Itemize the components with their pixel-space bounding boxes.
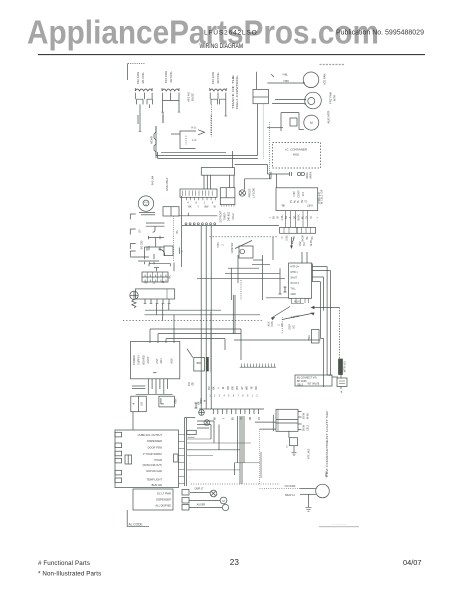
- svg-text:DISPENSER: DISPENSER: [156, 498, 171, 502]
- svg-text:Y/BK: Y/BK: [175, 398, 178, 404]
- svg-text:VI: VI: [310, 216, 313, 219]
- svg-text:GND: GND: [291, 293, 297, 296]
- svg-text:D.BU: D.BU: [281, 214, 284, 220]
- svg-text:ICE FAN: ICE FAN: [323, 74, 327, 85]
- svg-text:H.O.: H.O.: [191, 125, 197, 129]
- svg-text:BK: BK: [273, 216, 276, 220]
- svg-text:BK: BK: [215, 417, 217, 421]
- svg-text:BD: BD: [293, 325, 296, 329]
- svg-text:DAMPER: DAMPER: [231, 242, 234, 253]
- svg-text:GY: GY: [259, 416, 261, 420]
- svg-text:CBL2: CBL2: [232, 213, 235, 220]
- svg-text:Publication No. 5995488029: Publication No. 5995488029: [336, 29, 424, 36]
- svg-text:P#4 120V: P#4 120V: [211, 72, 215, 84]
- svg-text:BU: BU: [302, 216, 305, 220]
- svg-text:NOPUD GAD: NOPUD GAD: [146, 469, 162, 473]
- svg-text:RD: RD: [256, 386, 258, 390]
- svg-text:— —— ——: — —— ——: [332, 523, 347, 526]
- svg-text:<: <: [269, 216, 271, 220]
- svg-text:RLY: RLY: [302, 191, 305, 196]
- svg-text:DELI CONTROL: DELI CONTROL: [235, 74, 239, 109]
- svg-text:ACAR: ACAR: [150, 136, 154, 144]
- svg-text:WIRING DIAGRAM: WIRING DIAGRAM: [200, 43, 244, 50]
- svg-text:OR: OR: [250, 416, 252, 420]
- svg-text:AU: AU: [294, 200, 297, 204]
- svg-text:GND CBL4: GND CBL4: [165, 177, 169, 191]
- svg-text:CBL2: CBL2: [307, 424, 310, 431]
- svg-text:MTR 1: MTR 1: [291, 271, 299, 274]
- svg-text:BR: BR: [233, 386, 235, 390]
- svg-text:L.O.: L.O.: [192, 138, 197, 142]
- svg-text:AUX: AUX: [170, 358, 174, 364]
- svg-text:BL/R OD: BL/R OD: [152, 483, 163, 487]
- svg-text:DISPENSER: DISPENSER: [147, 439, 162, 443]
- svg-text:BL/SC: BL/SC: [191, 93, 195, 101]
- svg-text:ASSY: ASSY: [146, 356, 150, 363]
- svg-text:AL.CODE: AL.CODE: [129, 523, 143, 527]
- svg-text:DC LT PWR: DC LT PWR: [157, 492, 171, 496]
- svg-text:Y/R L400: Y/R L400: [308, 448, 311, 459]
- svg-text:OR: OR: [293, 215, 296, 219]
- svg-text:04/07: 04/07: [403, 558, 422, 567]
- svg-text:WTR VLV: WTR VLV: [343, 361, 347, 373]
- svg-text:PWR: PWR: [308, 335, 311, 341]
- svg-text:DEFROST: DEFROST: [220, 210, 223, 222]
- svg-text:POUR: POUR: [155, 458, 163, 462]
- svg-text:M: M: [310, 121, 313, 125]
- svg-text:L.FLOW: L.FLOW: [252, 188, 256, 198]
- svg-text:SO CB3: SO CB3: [141, 240, 144, 249]
- svg-text:>: >: [316, 216, 318, 220]
- svg-text:J#1 COIL: J#1 COIL: [141, 72, 145, 84]
- svg-text:BU: BU: [303, 242, 306, 246]
- svg-text:BK/W: BK/W: [303, 412, 306, 419]
- svg-text:115V: 115V: [293, 191, 296, 197]
- svg-text:BK/W: BK/W: [303, 424, 306, 431]
- svg-text:P#5 J#4: P#5 J#4: [151, 175, 155, 185]
- svg-text:DISP LT: DISP LT: [195, 488, 204, 491]
- svg-text:WB: WB: [247, 386, 249, 390]
- svg-text:(W/SC/CM OUT): (W/SC/CM OUT): [143, 463, 163, 467]
- svg-text:CUBE SOL OUTPUT: CUBE SOL OUTPUT: [138, 433, 163, 437]
- svg-text:YB: YB: [251, 386, 253, 390]
- svg-text:I.C. CONTAINER: I.C. CONTAINER: [285, 148, 307, 152]
- svg-text:GY: GY: [306, 215, 309, 219]
- svg-text:GY: GY: [242, 386, 244, 390]
- svg-text:POWER: POWER: [132, 355, 136, 365]
- svg-text:HSG: HSG: [293, 153, 300, 157]
- svg-text:⌜BK: ⌜BK: [281, 204, 286, 207]
- svg-text:P TOUR SW/DC: P TOUR SW/DC: [143, 452, 162, 456]
- svg-text:OR: OR: [228, 386, 230, 390]
- svg-text:BU: BU: [306, 236, 309, 240]
- svg-text:D: D: [281, 236, 284, 238]
- svg-text:GY: GY: [139, 229, 142, 233]
- svg-text:SUPPLY: SUPPLY: [137, 355, 141, 365]
- svg-text:BU: BU: [232, 417, 234, 421]
- svg-text:HTR 24: HTR 24: [291, 266, 300, 269]
- svg-text:# Functional Parts: # Functional Parts: [38, 560, 90, 567]
- svg-text:Y-BL: Y-BL: [282, 73, 288, 77]
- svg-text:FRZ COMPARTMENT LIGHT SW: FRZ COMPARTMENT LIGHT SW: [325, 411, 329, 477]
- svg-text:SHUT: SHUT: [291, 277, 298, 280]
- svg-text:Y/BK: Y/BK: [217, 242, 220, 248]
- svg-text:BK: BK: [311, 236, 314, 240]
- svg-text:BK/W: BK/W: [302, 235, 305, 242]
- svg-text:LIM: LIM: [141, 402, 144, 406]
- svg-text:ADJ: ADJ: [159, 358, 163, 364]
- svg-text:LFUS2642LSO: LFUS2642LSO: [204, 29, 258, 36]
- svg-text:CBL2: CBL2: [326, 471, 328, 477]
- svg-text:ALL DISP BD: ALL DISP BD: [155, 504, 171, 508]
- svg-text:W CO 2: W CO 2: [291, 282, 300, 285]
- svg-text:Y-BK: Y-BK: [283, 79, 289, 83]
- svg-text:BR: BR: [285, 216, 288, 220]
- svg-text:(V08 L13): (V08 L13): [317, 192, 321, 204]
- svg-text:W-BK: W-BK: [297, 214, 300, 221]
- svg-text:AUGER: AUGER: [197, 504, 206, 507]
- svg-text:BRN: BRN: [197, 363, 202, 365]
- svg-text:TH L: TH L: [291, 288, 297, 291]
- svg-text:BOARD: BOARD: [141, 355, 145, 364]
- svg-text:BK: BK: [214, 386, 216, 390]
- svg-text:BK: BK: [188, 206, 192, 209]
- svg-text:BRN: BRN: [201, 398, 203, 403]
- svg-text:WT VALVE: WT VALVE: [308, 383, 320, 386]
- svg-text:DOOR PSW: DOOR PSW: [148, 445, 163, 449]
- svg-text:BK/W L4: BK/W L4: [285, 494, 295, 497]
- svg-text:D.BU: D.BU: [286, 235, 289, 241]
- svg-text:ML CONNECT VIO: ML CONNECT VIO: [297, 378, 317, 380]
- svg-text:CON: CON: [271, 321, 274, 327]
- svg-text:Y/W: Y/W: [299, 241, 302, 246]
- svg-text:CNT: CNT: [155, 358, 159, 364]
- svg-text:GB: GB: [193, 382, 195, 386]
- svg-text:TEMP LIGHT: TEMP LIGHT: [146, 478, 162, 482]
- svg-text:240-652: 240-652: [228, 211, 231, 221]
- svg-text:P#2 240V: P#2 240V: [136, 72, 140, 84]
- svg-text:CBL3: CBL3: [297, 385, 303, 387]
- svg-text:BK: BK: [176, 230, 179, 234]
- svg-text:⌜min: ⌜min: [327, 374, 333, 377]
- svg-text:TIMER: TIMER: [224, 212, 227, 220]
- svg-text:COMP: COMP: [297, 190, 300, 198]
- svg-text:TV: TV: [290, 200, 293, 203]
- svg-text:AUX: AUX: [294, 300, 300, 304]
- svg-text:BK: BK: [199, 401, 201, 405]
- svg-text:PRESS: PRESS: [248, 188, 252, 197]
- svg-text:P10: P10: [189, 381, 191, 386]
- svg-text:W-BK: W-BK: [307, 412, 310, 419]
- svg-text:BK: BK: [169, 275, 172, 279]
- svg-text:L30 K: L30 K: [307, 204, 314, 207]
- svg-text:J#2 COIL: J#2 COIL: [169, 71, 173, 83]
- svg-text:23: 23: [230, 558, 240, 567]
- svg-text:HARN: HARN: [310, 172, 313, 179]
- svg-text:LD: LD: [304, 200, 307, 203]
- svg-text:C: C: [286, 446, 288, 449]
- svg-text:P#3 240V: P#3 240V: [164, 71, 168, 83]
- svg-text:W-BK: W-BK: [310, 239, 313, 246]
- svg-text:* Non-Illustrated Parts: * Non-Illustrated Parts: [38, 571, 101, 578]
- svg-text:VIO W-BK: VIO W-BK: [285, 485, 296, 488]
- svg-text:OV: OV: [301, 199, 304, 203]
- svg-text:J#3 COIL: J#3 COIL: [216, 72, 220, 84]
- svg-text:VIO: VIO: [237, 386, 239, 390]
- svg-text:BU: BU: [209, 386, 211, 390]
- svg-text:AUG MTR: AUG MTR: [327, 111, 331, 124]
- svg-text:BK W-BK: BK W-BK: [297, 381, 307, 383]
- svg-text:HI: HI: [133, 402, 136, 405]
- svg-text:DISP: DISP: [289, 324, 292, 330]
- svg-text:MTR: MTR: [333, 95, 337, 101]
